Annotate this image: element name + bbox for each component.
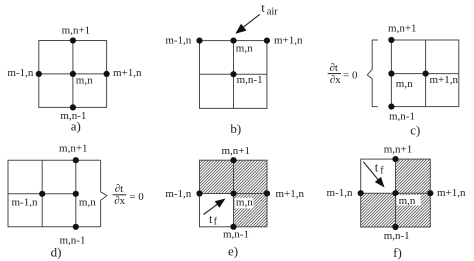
svg-text:m,n: m,n xyxy=(236,196,253,208)
node m-1,n (d) xyxy=(39,191,45,197)
svg-text:m-1,n: m-1,n xyxy=(165,35,191,47)
svg-text:= 0: = 0 xyxy=(129,191,144,203)
node m+1,n (f) xyxy=(427,190,433,196)
wire: vertical center line b xyxy=(233,41,235,109)
hatched quadrant top-right (e) xyxy=(234,160,268,193)
svg-text:t: t xyxy=(375,160,379,174)
arrow t_air xyxy=(243,14,260,27)
svg-text:m+1,n: m+1,n xyxy=(113,67,142,79)
node m,n+1 (f) xyxy=(392,156,398,162)
svg-text:m,n-1: m,n-1 xyxy=(389,111,415,123)
svg-text:m+1,n: m+1,n xyxy=(274,35,303,47)
node m,n-1 (a) xyxy=(70,104,76,110)
svg-text:m,n: m,n xyxy=(399,195,416,207)
arrow t_f (f) xyxy=(363,162,379,182)
svg-text:m,n: m,n xyxy=(396,78,413,90)
svg-text:m,n-1: m,n-1 xyxy=(384,230,410,242)
node m,n+1 (d) xyxy=(73,157,79,163)
grid square a xyxy=(39,41,107,108)
label m,n with white box (f) xyxy=(397,195,421,205)
svg-text:b): b) xyxy=(230,121,241,136)
svg-text:m,n: m,n xyxy=(236,43,253,55)
node m,n (b) xyxy=(230,38,236,44)
right edge with brace kink (d) xyxy=(101,160,107,227)
node m,n (c) xyxy=(388,71,394,77)
svg-text:c): c) xyxy=(410,123,420,138)
svg-text:m-1,n: m-1,n xyxy=(7,67,33,79)
node m,n-1 (c) xyxy=(388,104,394,110)
node m,n-1 (d) xyxy=(73,224,79,230)
hatched quadrant bottom-left (f) xyxy=(361,193,396,227)
wire: horizontal center line d xyxy=(8,193,76,195)
hatched quadrant bottom-right (f) xyxy=(396,193,431,227)
node m,n-1 (b) xyxy=(230,71,236,77)
grid square c xyxy=(391,40,458,107)
svg-text:m,n+1: m,n+1 xyxy=(59,143,88,155)
label m,n with white box (e) xyxy=(235,198,254,208)
node m-1,n (b) xyxy=(196,38,202,44)
node m,n (e) xyxy=(230,190,236,196)
node m-1,n (e) xyxy=(196,190,202,196)
node m,n (d) xyxy=(73,191,79,197)
node m,n (a) xyxy=(70,71,76,77)
svg-text:f): f) xyxy=(393,245,402,260)
node m-1,n (f) xyxy=(358,190,364,196)
grid square e xyxy=(200,160,268,227)
node m-1,n (a) xyxy=(36,71,42,77)
svg-text:m,n: m,n xyxy=(79,197,96,209)
node m,n+1 (a) xyxy=(70,37,76,43)
svg-text:m,n+1: m,n+1 xyxy=(221,145,250,157)
grid rectangle d xyxy=(8,160,107,227)
svg-text:d): d) xyxy=(51,245,62,260)
node m,n-1 (e) xyxy=(230,224,236,230)
svg-text:m+1,n: m+1,n xyxy=(430,74,459,86)
node m,n+1 (e) xyxy=(230,157,236,163)
node m+1,n (c) xyxy=(423,71,429,77)
svg-text:m,n-1: m,n-1 xyxy=(223,229,249,241)
hatched quadrant top-right (f) xyxy=(396,159,431,193)
wire: vertical center line a xyxy=(72,41,74,108)
svg-text:m,n-1: m,n-1 xyxy=(237,74,263,86)
node m,n+1 (c) xyxy=(388,37,394,43)
brace (c) xyxy=(367,40,378,107)
node m+1,n (b) xyxy=(264,38,270,44)
svg-text:air: air xyxy=(267,6,279,17)
svg-text:m,n+1: m,n+1 xyxy=(388,23,417,35)
svg-text:∂x: ∂x xyxy=(114,195,125,207)
svg-text:m-1,n: m-1,n xyxy=(327,187,353,199)
svg-text:∂t: ∂t xyxy=(115,183,124,195)
hatched quadrant top-left (e) xyxy=(200,160,234,193)
node m+1,n (e) xyxy=(264,190,270,196)
node m,n-1 (f) xyxy=(392,224,398,230)
svg-text:m,n: m,n xyxy=(76,75,93,87)
svg-text:m,n-1: m,n-1 xyxy=(60,235,86,247)
svg-text:m-1,n: m-1,n xyxy=(12,197,38,209)
svg-text:m+1,n: m+1,n xyxy=(437,187,466,199)
wire: vertical center line c xyxy=(425,40,427,107)
grid square f xyxy=(361,159,431,227)
wire: vertical line 2 (d) xyxy=(75,160,77,227)
wire: vertical line 1 (d) xyxy=(41,160,43,227)
svg-text:t: t xyxy=(209,212,213,226)
svg-text:m-1,n: m-1,n xyxy=(165,188,191,200)
svg-text:= 0: = 0 xyxy=(343,70,358,82)
svg-text:a): a) xyxy=(71,119,81,134)
svg-text:∂t: ∂t xyxy=(329,62,338,74)
svg-text:m+1,n: m+1,n xyxy=(276,188,305,200)
wire: horizontal center line b xyxy=(200,73,267,75)
svg-text:m,n+1: m,n+1 xyxy=(384,144,413,156)
svg-text:e): e) xyxy=(228,244,238,259)
svg-text:∂x: ∂x xyxy=(330,74,341,86)
wire: horizontal center line c xyxy=(391,73,458,75)
node m,n (f) xyxy=(392,190,398,196)
svg-text:t: t xyxy=(261,0,265,15)
hatched quadrant bottom-right (e) xyxy=(234,194,268,227)
wire: horizontal center line a xyxy=(39,73,107,75)
node m+1,n (a) xyxy=(104,71,110,77)
arrow t_f (e) xyxy=(204,203,219,214)
grid square b xyxy=(200,41,267,109)
svg-text:m,n+1: m,n+1 xyxy=(62,24,91,36)
